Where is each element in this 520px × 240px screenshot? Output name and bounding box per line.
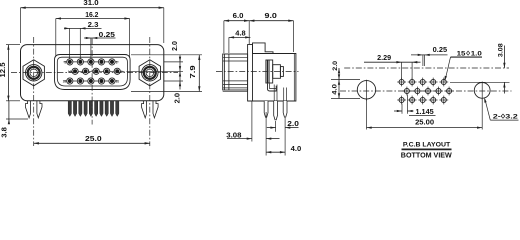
svg-text:6.0: 6.0: [233, 13, 244, 20]
svg-text:P.C.B LAYOUT: P.C.B LAYOUT: [403, 142, 451, 149]
svg-text:2.3: 2.3: [88, 22, 99, 29]
PCB hole middle row #1: [404, 88, 409, 93]
PCB pin 4 (front view): [84, 101, 87, 117]
PCB hole bottom row #5: [441, 97, 446, 102]
contact pin middle row #2: [83, 68, 89, 74]
body top tab: [253, 43, 274, 54]
dimension 1.145: [394, 110, 402, 112]
svg-text:25.0: 25.0: [85, 136, 102, 143]
PCB hole top row #1: [399, 79, 404, 84]
svg-text:3.08: 3.08: [226, 132, 241, 139]
svg-text:31.0: 31.0: [83, 0, 98, 7]
vertical centerline front view: [91, 39, 93, 125]
side view shell: [223, 54, 248, 90]
dimension 0.25: [84, 37, 116, 39]
svg-text:9.0: 9.0: [265, 13, 278, 20]
D-sub insert inner outline: [57, 57, 127, 86]
PCB pin 5 (front view): [89, 101, 92, 117]
svg-text:7.9: 7.9: [190, 65, 197, 78]
dimension 6.0: [224, 20, 249, 22]
dimension 12.5: [7, 45, 9, 101]
PCB layout upper reference centerline: [344, 67, 509, 69]
dimension 2.29: [364, 61, 421, 63]
svg-text:2.29: 2.29: [377, 55, 391, 62]
dimension 16.2: [56, 18, 130, 20]
svg-text:4.0: 4.0: [291, 146, 302, 153]
dimension 9.0: [249, 20, 293, 22]
flange: [248, 45, 253, 102]
svg-text:15: 15: [63, 80, 67, 84]
retention latch hook: [268, 84, 277, 92]
contact pin top row #3: [88, 59, 94, 65]
PCB layout main centerline: [340, 90, 512, 92]
dimension 3.08 (PCB): [503, 46, 505, 69]
svg-text:2.0: 2.0: [332, 61, 339, 71]
body outline: [248, 54, 296, 102]
dimension 2.0 (middle row to bottom row): [179, 71, 181, 76]
PCB pin 1 (front view): [68, 101, 71, 117]
left mounting hole: [357, 81, 375, 99]
jack screw end: [280, 67, 283, 77]
svg-text:2.0: 2.0: [287, 121, 299, 128]
dimension 7.9: [198, 55, 200, 92]
pin row line (middle row): [69, 70, 125, 72]
PCB pin 9 (front view): [110, 101, 113, 117]
shell inner lines: [223, 56, 248, 58]
PCB pin 2 (front view): [73, 101, 76, 117]
PCB hole top row #2: [410, 79, 415, 84]
svg-text:4.8: 4.8: [235, 31, 246, 38]
left nut centerline: [33, 37, 35, 146]
contact pin top row #5: [109, 59, 115, 65]
dimension 4.0 (side view): [266, 151, 285, 153]
right board lock clip: [142, 101, 147, 118]
svg-text:4.0: 4.0: [331, 84, 338, 95]
contact pin top row #4: [98, 59, 104, 65]
svg-text:25.00: 25.00: [415, 119, 434, 126]
PCB pin 3 (front view): [79, 101, 82, 117]
dimension 4.8: [229, 36, 251, 38]
svg-text:0.25: 0.25: [433, 47, 448, 54]
svg-text:1: 1: [116, 60, 118, 64]
contact pin bottom row #2: [77, 78, 83, 84]
contact pin bottom row #3: [88, 78, 94, 84]
dimension 25.00: [367, 127, 483, 129]
hidden pin lines inside body: [273, 85, 275, 102]
svg-text:BOTTOM VIEW: BOTTOM VIEW: [401, 150, 452, 158]
dimension 4.0 (PCB): [338, 80, 340, 99]
dimension 25.0: [34, 142, 150, 144]
contact pin bottom row #5: [109, 78, 115, 84]
svg-text:6: 6: [121, 70, 123, 74]
horizontal centerline front view: [11, 72, 178, 74]
contact pin top row #2: [77, 59, 83, 65]
left hex jack screw nut: [23, 60, 44, 86]
PCB pin 10 (front view): [116, 101, 119, 117]
right mounting hole: [474, 83, 490, 99]
svg-text:2.0: 2.0: [175, 93, 182, 104]
contact pin bottom row #1: [67, 78, 73, 84]
pin row line (bottom row): [64, 80, 119, 82]
contact pin top row #1: [67, 59, 73, 65]
svg-text:3.8: 3.8: [1, 127, 8, 138]
front view connector body outline: [21, 45, 164, 101]
dimension 31.0: [21, 7, 164, 9]
svg-text:10: 10: [68, 70, 72, 74]
contact pin middle row #4: [104, 68, 110, 74]
PCB hole bottom row #3: [420, 97, 425, 102]
dimension 2.0 (pin spacing side view): [267, 127, 276, 129]
side view pin 3: [283, 101, 287, 117]
side view pin 2: [274, 101, 278, 120]
svg-text:12.5: 12.5: [0, 62, 7, 77]
svg-text:5: 5: [64, 60, 66, 64]
dimension 2.0 (top row to middle row): [179, 55, 181, 89]
left board lock clip: [25, 101, 30, 118]
PCB hole middle row #2: [415, 88, 420, 93]
svg-text:2-◊3.2: 2-◊3.2: [493, 114, 518, 121]
PCB hole top row #3: [420, 79, 425, 84]
jack screw cylinder: [273, 65, 281, 79]
svg-text:2.0: 2.0: [172, 41, 179, 51]
right nut centerline: [149, 37, 151, 146]
PCB hole middle row #4: [436, 88, 441, 93]
dimension 3.08 (side view): [227, 138, 252, 140]
svg-text:16.2: 16.2: [85, 12, 98, 19]
side view pin 1: [264, 101, 268, 117]
contact pin middle row #3: [93, 68, 99, 74]
svg-text:0.25: 0.25: [99, 32, 115, 39]
dimension 2.3: [64, 27, 102, 29]
PCB hole middle row #3: [425, 88, 430, 93]
jack screw hex: [266, 60, 273, 83]
PCB pin 7 (front view): [100, 101, 103, 117]
right hex jack screw nut: [139, 60, 160, 86]
contact pin middle row #1: [72, 68, 78, 74]
PCB pin 8 (front view): [105, 101, 108, 117]
contact pin bottom row #4: [98, 78, 104, 84]
svg-text:11: 11: [116, 80, 120, 84]
dimension 3.8: [8, 101, 10, 124]
dimension 2.0 (PCB): [338, 68, 340, 80]
PCB hole bottom row #1: [399, 97, 404, 102]
D-sub insert outer outline: [55, 55, 131, 90]
contact pin middle row #5: [114, 68, 120, 74]
PCB hole top row #4: [431, 79, 436, 84]
PCB hole bottom row #2: [410, 97, 415, 102]
dimension 0.25 (PCB): [411, 54, 448, 56]
side view centerline: [216, 71, 299, 73]
svg-text:3.08: 3.08: [498, 43, 505, 57]
svg-text:1.145: 1.145: [416, 109, 434, 116]
pin row line (top row): [64, 61, 119, 63]
PCB pin 6 (front view): [95, 101, 98, 117]
PCB hole top row #5: [441, 79, 446, 84]
PCB hole bottom row #4: [431, 97, 436, 102]
PCB hole middle row #5: [447, 88, 452, 93]
